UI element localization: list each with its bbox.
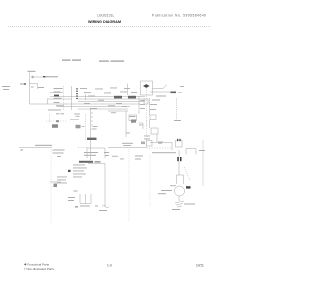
svg-text:† Non-Illustrated Parts: † Non-Illustrated Parts	[24, 267, 54, 271]
svg-text:1-3: 1-3	[107, 264, 112, 268]
svg-text:✱ Functional Parts: ✱ Functional Parts	[24, 263, 50, 267]
svg-text:WIRING DIAGRAM: WIRING DIAGRAM	[88, 20, 121, 24]
svg-text:Publication No. 5995584649: Publication No. 5995584649	[152, 13, 206, 17]
svg-text:10/11: 10/11	[196, 264, 204, 268]
svg-text:LGUI2131L: LGUI2131L	[97, 14, 114, 18]
